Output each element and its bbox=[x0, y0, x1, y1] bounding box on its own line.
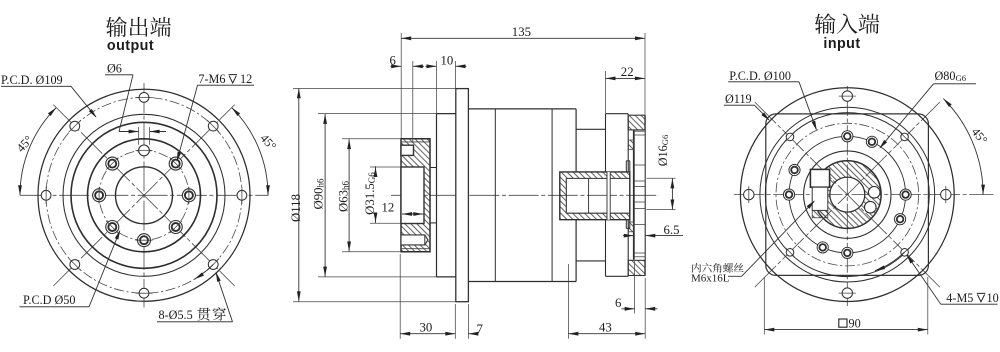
M6 tapped hole at 225 deg bbox=[106, 221, 119, 234]
Ø5.5 through hole input side at 180 deg bbox=[842, 288, 852, 298]
svg-text:43: 43 bbox=[599, 321, 612, 335]
bolt circle arc arrow bottom bbox=[194, 265, 213, 280]
coupling slit bbox=[607, 172, 610, 220]
M6 tapped hole at 270 deg bbox=[93, 189, 106, 202]
output view horizontal centerline bbox=[20, 194, 269, 196]
M6 tapped hole at 45 deg bbox=[169, 157, 182, 170]
svg-text:12: 12 bbox=[240, 72, 252, 86]
ring gear bolt at 115 deg bbox=[895, 214, 906, 225]
ring gear bolt at 295 deg bbox=[789, 164, 800, 175]
flange plate Ø118 section bbox=[456, 89, 469, 302]
svg-text:P.C.D Ø50: P.C.D Ø50 bbox=[23, 293, 76, 307]
svg-text:P.C.D. Ø109: P.C.D. Ø109 bbox=[1, 73, 63, 87]
dimension 12 bore depth bbox=[402, 213, 423, 215]
center bore Ø31.5 section bbox=[401, 167, 424, 224]
ring gear bolt at 205 deg bbox=[817, 242, 828, 253]
dimension Ø16 G6 bbox=[647, 177, 676, 179]
M6 tapped hole at 135 deg bbox=[169, 221, 182, 234]
Ø5.5 through hole at 225 deg bbox=[70, 260, 80, 270]
dimension square 90 bbox=[763, 277, 765, 335]
dimension Ø90 h6 bbox=[318, 113, 437, 115]
leader and dimension Ø6 bbox=[119, 75, 133, 132]
svg-text:output: output bbox=[107, 38, 154, 54]
input body circle bbox=[760, 107, 935, 282]
input coupling hatched disc bbox=[814, 161, 882, 229]
M5 tapped corner hole bbox=[786, 133, 794, 141]
dimension Ø63 h6 bbox=[342, 138, 401, 140]
coupling mounting disc bbox=[625, 161, 627, 172]
dimension 10 bbox=[436, 61, 438, 113]
M6 tapped hole at 90 deg bbox=[182, 189, 195, 202]
output bolt circle P.C.D Ø50 dash-dot bbox=[99, 150, 189, 240]
ring gear bolt at 270 deg bbox=[783, 189, 794, 200]
ring gear bolt at 0 deg bbox=[842, 131, 853, 142]
svg-text:6: 6 bbox=[390, 53, 397, 67]
leader 7-M6 bbox=[177, 85, 197, 160]
ring gear bolt at 90 deg bbox=[900, 189, 911, 200]
leader P.C.D. Ø100 bbox=[799, 82, 816, 129]
svg-text:4-M5: 4-M5 bbox=[946, 291, 973, 305]
45 deg dimension arc input view bbox=[943, 99, 983, 195]
dimension 43 bbox=[567, 264, 569, 339]
dimension 30 bbox=[399, 254, 401, 339]
leader P.C.D Ø50 bbox=[89, 231, 120, 307]
input view vertical centerline bbox=[846, 86, 848, 306]
ring gear bolt at 25 deg bbox=[866, 136, 877, 147]
svg-text:input: input bbox=[823, 36, 860, 52]
svg-text:12: 12 bbox=[382, 201, 395, 215]
M6 tapped hole at 180 deg bbox=[138, 234, 151, 247]
gearbox body outline bbox=[468, 108, 576, 110]
dimension 22 bbox=[605, 71, 607, 113]
input ring gear bolt circle bbox=[789, 136, 906, 253]
M5 tapped corner hole bbox=[786, 249, 794, 257]
leader Ø119 bbox=[755, 105, 770, 120]
svg-text:10: 10 bbox=[441, 53, 454, 67]
M5 tapped corner hole bbox=[901, 133, 909, 141]
svg-text:Ø119: Ø119 bbox=[725, 92, 752, 106]
bearing retainer details bbox=[633, 131, 635, 260]
input view diagonal centerline SW-NE bbox=[755, 102, 940, 287]
Ø5.5 through hole at 0 deg bbox=[139, 93, 149, 103]
input coupling hatched section bbox=[560, 172, 630, 220]
ring gear bolt at 180 deg bbox=[842, 247, 853, 258]
input adapter plate hatched top bbox=[628, 115, 645, 130]
Ø5.5 through hole input side at 270 deg bbox=[744, 189, 754, 199]
svg-text:7: 7 bbox=[477, 322, 484, 336]
coupling disc hole 2 bbox=[865, 201, 877, 213]
svg-text:22: 22 bbox=[621, 65, 634, 79]
output hub outline Ø63 bbox=[401, 139, 430, 252]
45 deg dimension arc right bbox=[232, 108, 268, 196]
svg-text:Ø6: Ø6 bbox=[107, 62, 122, 76]
input coupling outer circle bbox=[804, 151, 891, 238]
Ø5.5 through hole at 90 deg bbox=[237, 190, 247, 200]
input shaft bore circle bbox=[830, 177, 865, 212]
leader 8-Ø5.5 bbox=[216, 273, 232, 322]
body step to input bbox=[576, 128, 605, 130]
input view diagonal centerline NW-SE bbox=[755, 102, 940, 287]
output view vertical centerline bbox=[143, 83, 145, 308]
dimension 6 bottom bbox=[634, 261, 636, 314]
input view horizontal centerline bbox=[734, 194, 994, 196]
label hex socket screw M6x16L bbox=[692, 263, 701, 273]
input outer circle Ø119 bbox=[740, 88, 954, 302]
output center bore circle Ø31.5 bbox=[116, 167, 173, 224]
45 deg dimension arc left bbox=[20, 108, 56, 196]
leader P.C.D. Ø109 bbox=[71, 86, 96, 117]
output hub hatched section bbox=[401, 139, 430, 252]
svg-text:6: 6 bbox=[615, 296, 622, 310]
input square flange plate section bbox=[605, 114, 607, 172]
svg-text:P.C.D. Ø100: P.C.D. Ø100 bbox=[729, 69, 791, 83]
M5 tapped corner hole bbox=[901, 249, 909, 257]
output bolt circle P.C.D. Ø109 dash-dot bbox=[46, 97, 242, 293]
svg-text:30: 30 bbox=[420, 321, 433, 335]
leader hex socket screw bbox=[728, 275, 742, 277]
dimension 6.5 bbox=[623, 235, 634, 237]
output view title 输出端 bbox=[106, 17, 127, 37]
output view diagonal centerline NW-SE bbox=[53, 105, 234, 286]
svg-text:M6x16L: M6x16L bbox=[691, 273, 730, 285]
Ø6 dowel hole at top bbox=[139, 145, 150, 156]
spigot face Ø90 bbox=[436, 114, 438, 277]
output hub circle Ø63 bbox=[88, 139, 201, 252]
dimension 135 bbox=[400, 33, 402, 139]
Ø5.5 through hole input side at 90 deg bbox=[941, 189, 951, 199]
svg-text:10: 10 bbox=[987, 291, 999, 305]
clamp screw block bbox=[810, 169, 829, 187]
svg-text:8-Ø5.5: 8-Ø5.5 bbox=[159, 308, 193, 322]
Ø5.5 through hole at 135 deg bbox=[208, 260, 218, 270]
M5 position arc arrow bbox=[875, 252, 905, 271]
svg-text:6.5: 6.5 bbox=[664, 223, 680, 237]
input end face bbox=[644, 115, 646, 275]
input adapter plate hatched bottom bbox=[628, 260, 645, 275]
hub chamfer lines bbox=[401, 141, 430, 143]
M6 tapped hole at 315 deg bbox=[106, 157, 119, 170]
input view title 输入端 bbox=[815, 13, 836, 33]
hub neck step bbox=[430, 167, 437, 169]
input P.C.D. Ø100 dash-dot circle bbox=[776, 123, 919, 266]
dimension Ø118 bbox=[293, 88, 456, 90]
output view diagonal centerline NE-SW bbox=[53, 105, 234, 286]
M6 tapped hole section with drill cone bbox=[401, 235, 428, 245]
Ø5.5 through hole at 180 deg bbox=[139, 288, 149, 298]
leader Ø80 G6 bbox=[880, 84, 933, 148]
dimension 6 top bbox=[412, 61, 414, 143]
dowel hole Ø6 section bbox=[401, 145, 414, 155]
output spigot circle Ø90 bbox=[63, 114, 225, 276]
svg-text:Ø118: Ø118 bbox=[289, 194, 303, 222]
section view horizontal centerline bbox=[391, 194, 659, 196]
svg-text:135: 135 bbox=[512, 25, 531, 39]
dimension Ø31.5 G6 bbox=[370, 166, 401, 168]
output face step circle bbox=[71, 122, 217, 268]
input spigot circle bbox=[765, 113, 929, 277]
input square flange outline □90 bbox=[766, 114, 929, 276]
output flange outer circle Ø118 bbox=[38, 89, 250, 301]
Ø5.5 through hole at 315 deg bbox=[70, 121, 80, 131]
dimension 7 bbox=[467, 304, 469, 339]
svg-text:7-M6: 7-M6 bbox=[198, 72, 225, 86]
Ø5.5 through hole at 270 deg bbox=[41, 190, 51, 200]
leader 4-M5 bbox=[908, 256, 941, 304]
Ø5.5 through hole at 45 deg bbox=[208, 121, 218, 131]
Ø5.5 through hole input side at 0 deg bbox=[842, 91, 852, 101]
coupling bore divider bbox=[588, 178, 590, 213]
coupling disc hole 1 bbox=[868, 187, 880, 199]
svg-text:90: 90 bbox=[849, 317, 861, 331]
